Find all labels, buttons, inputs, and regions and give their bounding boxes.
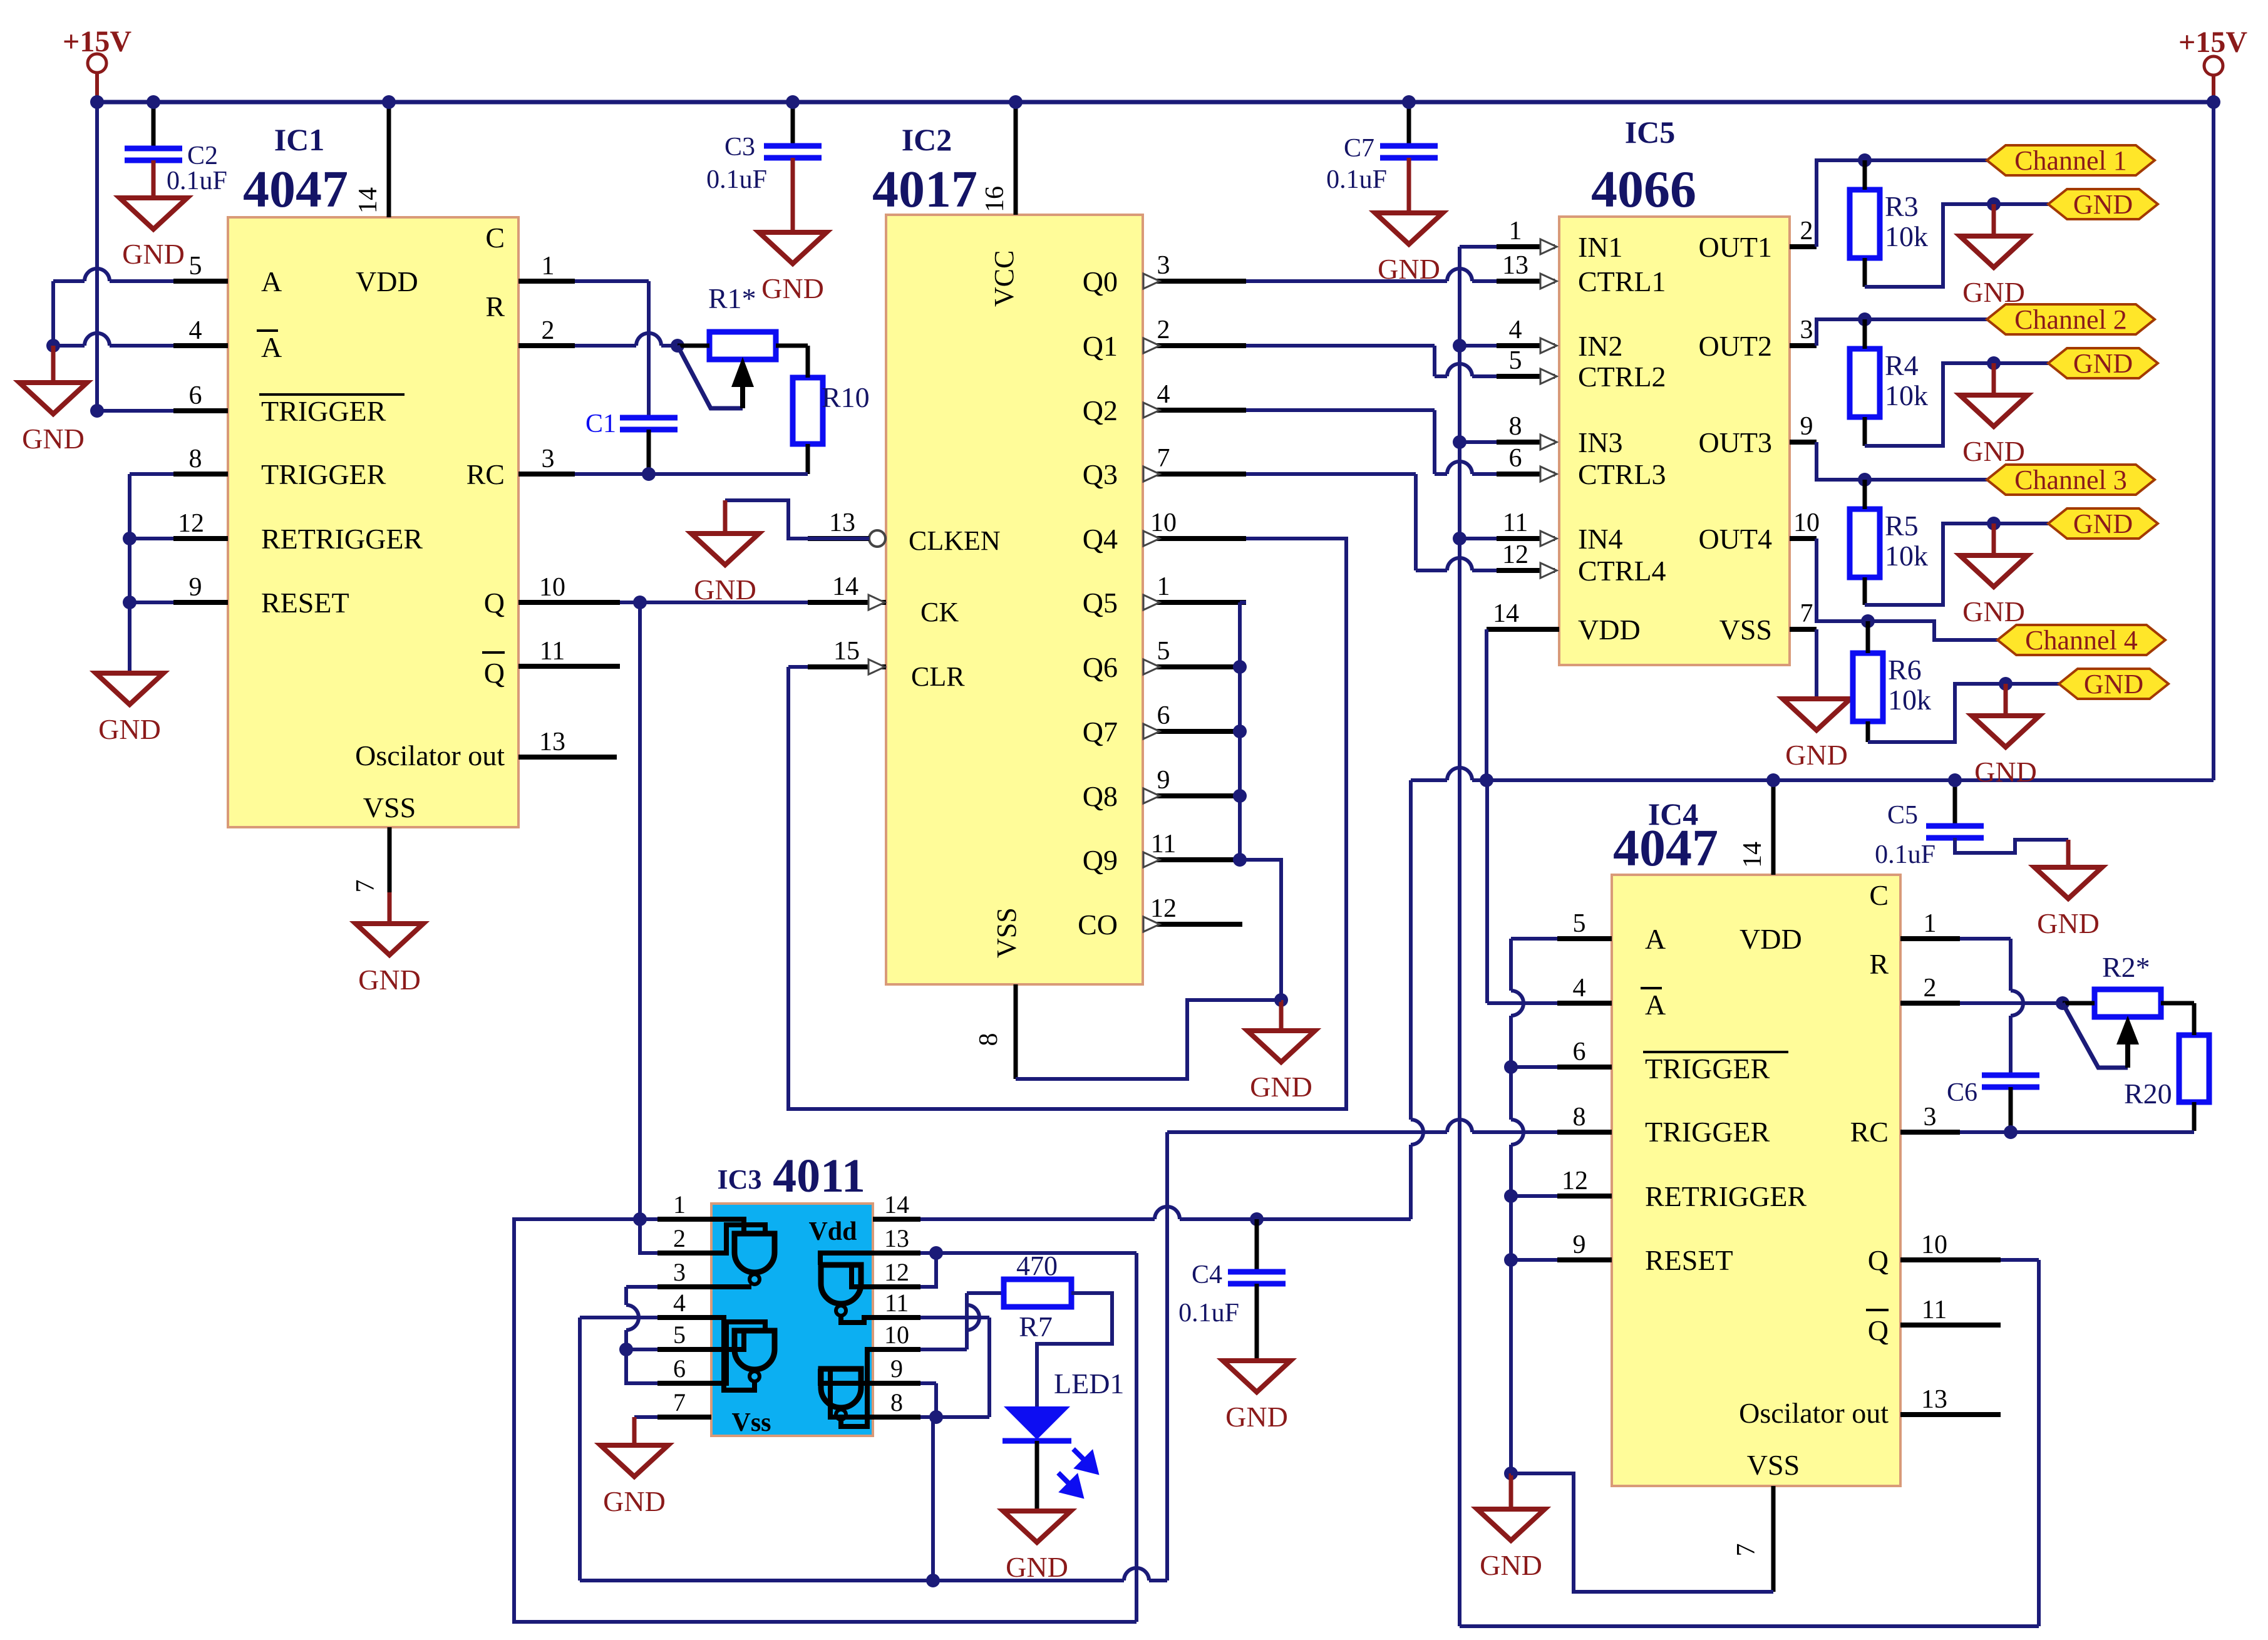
svg-text:GND: GND	[2073, 348, 2133, 379]
wire: Q3 to CTRL4	[1246, 472, 1416, 476]
svg-text:4017: 4017	[872, 160, 977, 219]
IC1 pin 2 stub	[518, 343, 575, 348]
svg-text:11: 11	[540, 637, 565, 666]
svg-text:C: C	[485, 222, 505, 254]
svg-text:C1: C1	[585, 410, 616, 438]
wire: +15V drop to IC1 pin 6	[95, 102, 99, 411]
wire: IC3 pin10 to R7	[920, 1348, 967, 1351]
wire: Q1 to CTRL2	[1246, 344, 1435, 348]
svg-text:4: 4	[1509, 316, 1522, 344]
svg-text:IN2: IN2	[1578, 330, 1623, 362]
svg-text:14: 14	[354, 187, 383, 214]
svg-text:10k: 10k	[1885, 540, 1928, 572]
svg-text:Channel 3: Channel 3	[2014, 465, 2127, 495]
svg-text:10: 10	[884, 1321, 909, 1349]
svg-text:CTRL2: CTRL2	[1578, 361, 1666, 393]
IC4 pin 7 stub (VSS bottom)	[1771, 1486, 1776, 1592]
svg-text:RETRIGGER: RETRIGGER	[261, 523, 423, 555]
IC4 pin 14 (VDD top)	[1771, 780, 1776, 875]
svg-text:Q1: Q1	[1083, 330, 1118, 362]
wire: Q net down to IC3	[638, 602, 642, 1219]
svg-text:8: 8	[1573, 1103, 1586, 1132]
svg-text:5: 5	[673, 1321, 686, 1349]
svg-text:R3: R3	[1885, 190, 1919, 222]
IC U2 body (IC2 4017)	[886, 215, 1143, 984]
wire: IC1 pin6 to +15V	[97, 409, 173, 413]
ground for R6	[2004, 684, 2008, 716]
wire: Q0 to CTRL1	[1246, 279, 1447, 283]
svg-text:0.1uF: 0.1uF	[1178, 1299, 1239, 1328]
node: IN3 junction	[1460, 440, 1497, 444]
IC1 pin 14 (VDD top)	[387, 102, 391, 217]
IC U4 body (IC4 4047)	[1612, 875, 1900, 1486]
svg-text:3: 3	[542, 445, 555, 473]
IC3 left pin stubs 1-7	[657, 1217, 711, 1222]
svg-text:10k: 10k	[1888, 684, 1931, 716]
svg-text:2: 2	[1800, 217, 1813, 245]
IC1 pin 5 stub (A)	[173, 279, 228, 284]
NAND gate A (pins 1,2 -> 3)	[735, 1234, 775, 1272]
svg-text:C7: C7	[1344, 134, 1374, 163]
capacitor C4	[1255, 1219, 1259, 1272]
svg-text:Q0: Q0	[1083, 266, 1118, 297]
LED1 emission arrows	[1058, 1449, 1096, 1495]
terminal flag GND (R6)	[2059, 669, 2168, 699]
svg-text:VSS: VSS	[363, 792, 416, 823]
svg-text:15: 15	[833, 637, 860, 666]
svg-text:R6: R6	[1888, 654, 1922, 686]
IC U3 body (IC3 4011)	[711, 1204, 873, 1436]
svg-text:3: 3	[1800, 316, 1813, 344]
svg-text:Oscilator out: Oscilator out	[1739, 1397, 1889, 1429]
IC4 pin 8 stub (TRIGGER)	[1557, 1130, 1612, 1135]
svg-text:R20: R20	[2124, 1078, 2172, 1110]
terminal flag Channel 4	[1997, 625, 2165, 655]
svg-text:11: 11	[885, 1289, 909, 1317]
wire: IN1-IN4 tie (signal from IC4 Q)	[1460, 245, 1497, 249]
svg-text:11: 11	[1503, 508, 1528, 537]
svg-text:R2*: R2*	[2102, 951, 2150, 983]
NAND gate B (pins 13,12 -> 11)	[821, 1265, 861, 1304]
svg-text:Q9: Q9	[1083, 844, 1118, 876]
svg-text:RESET: RESET	[261, 587, 349, 619]
svg-text:13: 13	[1502, 251, 1528, 280]
wire: IC1 pin5 net	[53, 279, 85, 283]
svg-text:7: 7	[1157, 444, 1170, 473]
terminal flag GND (R4)	[2048, 348, 2158, 378]
svg-text:GND: GND	[1480, 1549, 1542, 1581]
svg-text:6: 6	[189, 381, 202, 410]
svg-text:3: 3	[673, 1258, 686, 1286]
wire: IC3 pins12-13 tie	[920, 1251, 1137, 1255]
IC5 input pin stubs 1,13,4,5,8,6,11,12	[1497, 244, 1555, 249]
wire: outer loop pins1-2 to pins12-13	[514, 1219, 1137, 1622]
svg-text:TRIGGER: TRIGGER	[261, 458, 386, 490]
wire: IC4 pin9 tie	[1511, 1258, 1557, 1262]
svg-text:2: 2	[1157, 316, 1170, 344]
wire: IC1 Q to IC2 CK	[620, 601, 808, 604]
svg-text:2: 2	[542, 316, 555, 345]
wire: IC3 pins1-2 tie	[640, 1217, 657, 1221]
wire: IC1 pin4 net	[53, 344, 85, 348]
svg-text:TRIGGER: TRIGGER	[261, 395, 386, 427]
node: Q6 junction	[1233, 660, 1247, 674]
svg-text:6: 6	[1157, 701, 1170, 730]
svg-text:C3: C3	[724, 133, 755, 162]
wire: IC4 TRIGGER line	[1167, 1130, 1447, 1134]
svg-text:GND: GND	[2084, 669, 2143, 699]
svg-text:R7: R7	[1019, 1311, 1053, 1343]
node: bus junction left	[90, 95, 104, 109]
resistor R5 10k	[1850, 509, 1880, 577]
svg-text:12: 12	[884, 1258, 909, 1286]
ground for IC1 pins 8/12/9	[128, 671, 132, 676]
wire: IC1 pin9 tie	[130, 601, 173, 604]
svg-text:C4: C4	[1192, 1261, 1222, 1289]
svg-text:12: 12	[1502, 540, 1528, 569]
svg-text:0.1uF: 0.1uF	[1875, 840, 1936, 869]
IC2 pin 16 (VCC top)	[1014, 102, 1018, 215]
node: IN2 junction	[1460, 344, 1497, 348]
ground below C4	[1255, 1359, 1259, 1363]
wire: CLKEN to ground	[725, 500, 869, 539]
svg-text:7: 7	[1800, 599, 1813, 628]
svg-text:11: 11	[1151, 830, 1176, 859]
wire: IC1 pin8 net down	[130, 472, 173, 476]
wire: Q4 to CLR loop	[788, 665, 808, 669]
svg-text:13: 13	[829, 508, 855, 537]
svg-text:A: A	[261, 331, 282, 363]
IC U1 body (IC1 4047)	[228, 217, 518, 827]
svg-text:OUT4: OUT4	[1698, 523, 1772, 555]
wire: R4 bottom to GND flag	[1865, 363, 2048, 446]
svg-text:1: 1	[673, 1190, 686, 1219]
svg-text:GND: GND	[1785, 739, 1848, 771]
svg-text:1: 1	[542, 252, 555, 281]
svg-text:Oscilator out: Oscilator out	[355, 740, 505, 771]
IC4 pin 2 stub	[1900, 1001, 1960, 1006]
svg-text:OUT3: OUT3	[1698, 426, 1772, 458]
svg-text:CTRL3: CTRL3	[1578, 458, 1666, 490]
potentiometer R2*	[2095, 989, 2161, 1017]
svg-text:VSS: VSS	[991, 907, 1022, 958]
svg-text:5: 5	[1573, 909, 1586, 938]
svg-text:4066: 4066	[1591, 160, 1696, 219]
svg-text:2: 2	[673, 1224, 686, 1252]
ground below IC1 VSS	[388, 892, 392, 924]
svg-text:Q: Q	[1868, 1314, 1889, 1346]
resistor R7 (470)	[1004, 1279, 1071, 1307]
svg-text:9: 9	[1800, 412, 1813, 441]
node: C2 bus junction	[147, 95, 160, 109]
wire: IC1 pin1 to RC network	[575, 279, 649, 283]
svg-text:GND: GND	[122, 238, 185, 270]
wire: node to Channel 4 flag	[1868, 621, 1997, 640]
wire: IC4 pin4 to +15V rail	[1487, 1001, 1557, 1005]
wire: IC2 VSS return	[1016, 1000, 1281, 1079]
IC1 pin 8 stub (TRIGGER)	[173, 472, 228, 477]
svg-text:Q3: Q3	[1083, 458, 1118, 490]
capacitor C6	[1982, 1073, 2039, 1078]
svg-text:6: 6	[673, 1354, 686, 1383]
svg-text:10: 10	[539, 573, 565, 602]
wire: IC3 pin3 to pins5-6	[626, 1285, 657, 1289]
node: C3 bus junction	[786, 95, 800, 109]
svg-text:Q5: Q5	[1083, 587, 1118, 619]
svg-text:7: 7	[351, 880, 380, 893]
svg-text:0.1uF: 0.1uF	[1326, 165, 1387, 194]
svg-text:6: 6	[1509, 444, 1522, 473]
resistor R3 10k	[1850, 190, 1880, 258]
node: IC1 pin14 bus junction	[382, 95, 396, 109]
svg-text:A: A	[261, 266, 282, 297]
wire: Q5-Q9 tie vertical	[1240, 601, 1246, 604]
ground for Q5-Q9 net	[1279, 1000, 1284, 1031]
svg-text:GND: GND	[1225, 1401, 1288, 1433]
svg-text:GND: GND	[2037, 907, 2100, 939]
IC4 pin 5 stub (A)	[1557, 936, 1612, 941]
+15V terminal left	[88, 54, 106, 73]
NAND gate D (pins 9,8 -> 10)	[821, 1369, 861, 1408]
svg-text:13: 13	[884, 1224, 909, 1252]
svg-text:3: 3	[1157, 251, 1170, 280]
svg-text:12: 12	[178, 509, 204, 538]
svg-text:IC1: IC1	[274, 122, 325, 157]
svg-text:TRIGGER: TRIGGER	[1645, 1053, 1770, 1085]
svg-text:Vss: Vss	[731, 1408, 771, 1437]
svg-text:CLR: CLR	[911, 661, 965, 692]
wire: IC5 VSS to ground	[1815, 629, 1818, 699]
wire: OUT4 to R6 node	[1817, 539, 1868, 621]
svg-text:A: A	[1645, 923, 1666, 955]
svg-text:8: 8	[974, 1033, 1003, 1046]
svg-text:GND: GND	[1962, 596, 2025, 627]
svg-text:10: 10	[1921, 1230, 1947, 1259]
svg-text:4: 4	[1157, 380, 1170, 409]
svg-text:VSS: VSS	[1747, 1449, 1800, 1481]
IC1 pin 11 stub (Q-bar)	[518, 664, 620, 669]
svg-text:GND: GND	[22, 423, 85, 455]
IC1 pin 4 stub (A-bar)	[173, 343, 228, 348]
svg-text:C6: C6	[1947, 1078, 1977, 1107]
capacitor C1	[620, 415, 678, 421]
+15V terminal right	[2204, 56, 2223, 75]
node: inner loop junction	[926, 1574, 940, 1587]
wire: IC4 VSS return loop	[1511, 1473, 1773, 1592]
ground for IC3 Vss	[632, 1443, 637, 1448]
IC1 pin 12 stub (RETRIGGER)	[173, 536, 228, 541]
IC1 pin 3 stub (RC)	[518, 472, 575, 477]
IC1 pin 13 stub (Oscilator out)	[518, 755, 617, 760]
ground below C5	[2066, 865, 2071, 870]
IC3 pin 7 (Vss) to ground	[634, 1415, 657, 1419]
wire: R3 bottom to GND flag	[1865, 204, 2048, 287]
svg-text:IN4: IN4	[1578, 523, 1623, 555]
+15V power bus (top rail)	[97, 100, 2214, 105]
svg-text:5: 5	[189, 252, 202, 281]
svg-text:C: C	[1869, 879, 1889, 911]
svg-text:14: 14	[1738, 842, 1767, 868]
svg-text:GND: GND	[2073, 189, 2133, 220]
svg-text:LED1: LED1	[1054, 1368, 1124, 1400]
IC4 pin 6 stub (TRIGGER-bar)	[1557, 1065, 1612, 1070]
node: Q7 junction	[1233, 725, 1247, 738]
svg-text:14: 14	[884, 1190, 909, 1219]
terminal flag Channel 2	[1987, 304, 2155, 334]
wire: R6 bottom to GND flag	[1868, 684, 2059, 742]
wire: IC1 pin12 tie	[130, 537, 173, 540]
svg-text:Vdd: Vdd	[808, 1217, 857, 1246]
svg-text:4047: 4047	[1613, 819, 1718, 877]
svg-text:GND: GND	[761, 272, 824, 304]
svg-text:14: 14	[1493, 599, 1519, 628]
IC3 right pin stubs 14-8	[873, 1217, 920, 1222]
terminal flag Channel 1	[1987, 145, 2155, 175]
ground for R4	[1992, 363, 1996, 395]
node: C5 rail junction	[1948, 773, 1962, 787]
wire: R5 bottom to GND flag	[1865, 523, 2048, 605]
node: Q8 junction	[1233, 789, 1247, 803]
svg-text:R: R	[1869, 948, 1889, 980]
svg-text:1: 1	[1157, 572, 1170, 601]
svg-text:CTRL4: CTRL4	[1578, 555, 1666, 587]
svg-text:Q: Q	[484, 657, 505, 689]
wire: +15V feed down to IC3 Vdd	[1409, 780, 1413, 1120]
svg-text:R: R	[485, 291, 505, 322]
svg-text:VSS: VSS	[1719, 614, 1772, 646]
IC4 pin 1 stub (R)	[1900, 936, 1960, 941]
ground for IC5 VSS	[1815, 697, 1819, 701]
svg-text:C5: C5	[1887, 801, 1918, 830]
IC4 pin 13 stub (Oscilator out)	[1900, 1412, 2001, 1417]
wire: RC net (IC1 pin3)	[575, 472, 808, 476]
IC4 pin 3 stub (RC)	[1900, 1130, 1960, 1135]
ground for R5	[1992, 523, 1996, 555]
svg-text:VDD: VDD	[1578, 614, 1641, 646]
svg-text:6: 6	[1573, 1038, 1586, 1066]
wire: IC3 Vdd to +15V feed	[920, 1217, 1155, 1221]
ground for IC4 pins 5/6/12/9	[1509, 1473, 1513, 1509]
svg-text:IC5: IC5	[1625, 115, 1676, 150]
wire: IC4 pin3 RC net	[1960, 1130, 2194, 1134]
wire: Channel 2 net	[1817, 319, 1987, 346]
svg-text:RC: RC	[1850, 1116, 1889, 1148]
svg-text:3: 3	[1924, 1103, 1937, 1132]
svg-text:8: 8	[1509, 412, 1522, 441]
resistor R10	[793, 378, 823, 444]
svg-text:+15V: +15V	[63, 25, 131, 58]
terminal flag Channel 3	[1987, 465, 2155, 495]
wire: Q2 to CTRL3	[1246, 408, 1435, 412]
IC4 pin 10 stub (Q)	[1900, 1257, 2001, 1262]
svg-text:10k: 10k	[1885, 379, 1928, 411]
svg-text:10k: 10k	[1885, 220, 1928, 252]
svg-text:7: 7	[673, 1388, 686, 1416]
wire: IC4 pin1 to C6	[1960, 937, 2011, 941]
capacitor C3	[791, 102, 795, 146]
svg-text:13: 13	[1921, 1385, 1947, 1414]
svg-text:Q4: Q4	[1083, 523, 1118, 555]
wire: IN net bottom run to IC4 Q	[1460, 1624, 2039, 1628]
potentiometer R1*	[709, 332, 776, 359]
ground for LED1	[1035, 1509, 1039, 1514]
svg-text:9: 9	[890, 1354, 903, 1383]
node: IC4 ground node	[1504, 1467, 1518, 1480]
svg-text:GND: GND	[1250, 1071, 1312, 1103]
svg-text:VDD: VDD	[1740, 923, 1802, 955]
resistor R20	[2179, 1035, 2209, 1102]
svg-text:0.1uF: 0.1uF	[706, 165, 767, 194]
ground for IC1 pins 4/5	[51, 346, 56, 383]
svg-text:R1*: R1*	[708, 282, 756, 314]
svg-text:RETRIGGER: RETRIGGER	[1645, 1180, 1807, 1212]
wire: IC5 VDD to +15V rail	[1485, 629, 1488, 780]
IC4 pin 4 stub (A-bar)	[1557, 1001, 1612, 1006]
svg-text:Q8: Q8	[1083, 780, 1118, 812]
svg-text:10: 10	[1793, 508, 1820, 537]
svg-text:R10: R10	[822, 381, 870, 413]
IC2 pin 14 stub (CK)	[808, 600, 886, 605]
svg-text:8: 8	[890, 1388, 903, 1416]
IC1 pin 9 stub (RESET)	[173, 600, 228, 605]
svg-text:OUT2: OUT2	[1698, 330, 1772, 362]
capacitor C2	[152, 102, 156, 148]
svg-text:GND: GND	[98, 713, 161, 745]
wire: R7 to LED1	[1037, 1293, 1112, 1406]
svg-text:CLKEN: CLKEN	[909, 525, 1001, 556]
IC1 pin 1 stub (R)	[518, 279, 575, 284]
svg-text:IN1: IN1	[1578, 231, 1623, 263]
IC1 pin 7 stub (VSS bottom)	[388, 827, 392, 924]
svg-text:13: 13	[539, 728, 565, 756]
terminal flag GND (R5)	[2048, 508, 2158, 539]
svg-text:Q: Q	[484, 587, 505, 619]
IC4 pin 12 stub (RETRIGGER)	[1557, 1194, 1612, 1199]
svg-text:Q: Q	[1868, 1244, 1889, 1276]
svg-text:12: 12	[1150, 894, 1177, 923]
capacitor C7	[1407, 102, 1411, 146]
IC1 pin 6 stub (TRIGGER-bar)	[173, 408, 228, 413]
IC5 output pin stubs 2,3,9,10,7	[1790, 244, 1817, 249]
svg-text:1: 1	[1509, 217, 1522, 245]
R1 wiper arrow	[678, 346, 743, 408]
ground below C3	[791, 230, 795, 235]
svg-text:CK: CK	[920, 597, 959, 627]
svg-text:CO: CO	[1078, 909, 1118, 941]
svg-text:2: 2	[1924, 974, 1937, 1003]
wire: IC3 pin8 to pin11	[936, 1415, 989, 1419]
node: C7 bus junction	[1402, 95, 1416, 109]
ground for R3	[1992, 204, 1996, 236]
NAND gate C (pins 5,6 -> 4)	[735, 1331, 775, 1369]
svg-text:GND: GND	[1006, 1551, 1068, 1583]
svg-text:0.1uF: 0.1uF	[167, 167, 227, 195]
svg-text:10: 10	[1150, 508, 1177, 537]
node: bus junction right	[2207, 95, 2220, 109]
svg-text:7: 7	[1732, 1544, 1761, 1557]
wire: IC3 pin8/9 tie to loop	[920, 1381, 936, 1385]
svg-text:1: 1	[1924, 909, 1937, 938]
IC4 pin 9 stub (RESET)	[1557, 1257, 1612, 1262]
svg-text:4: 4	[1573, 974, 1586, 1003]
svg-text:IC2: IC2	[902, 122, 952, 157]
svg-text:4: 4	[189, 316, 202, 345]
svg-text:GND: GND	[2073, 508, 2133, 539]
ground below C2	[152, 196, 156, 200]
svg-text:9: 9	[189, 573, 202, 602]
svg-text:+15V: +15V	[2178, 26, 2247, 59]
wire: +15V right rail down	[2212, 102, 2215, 780]
